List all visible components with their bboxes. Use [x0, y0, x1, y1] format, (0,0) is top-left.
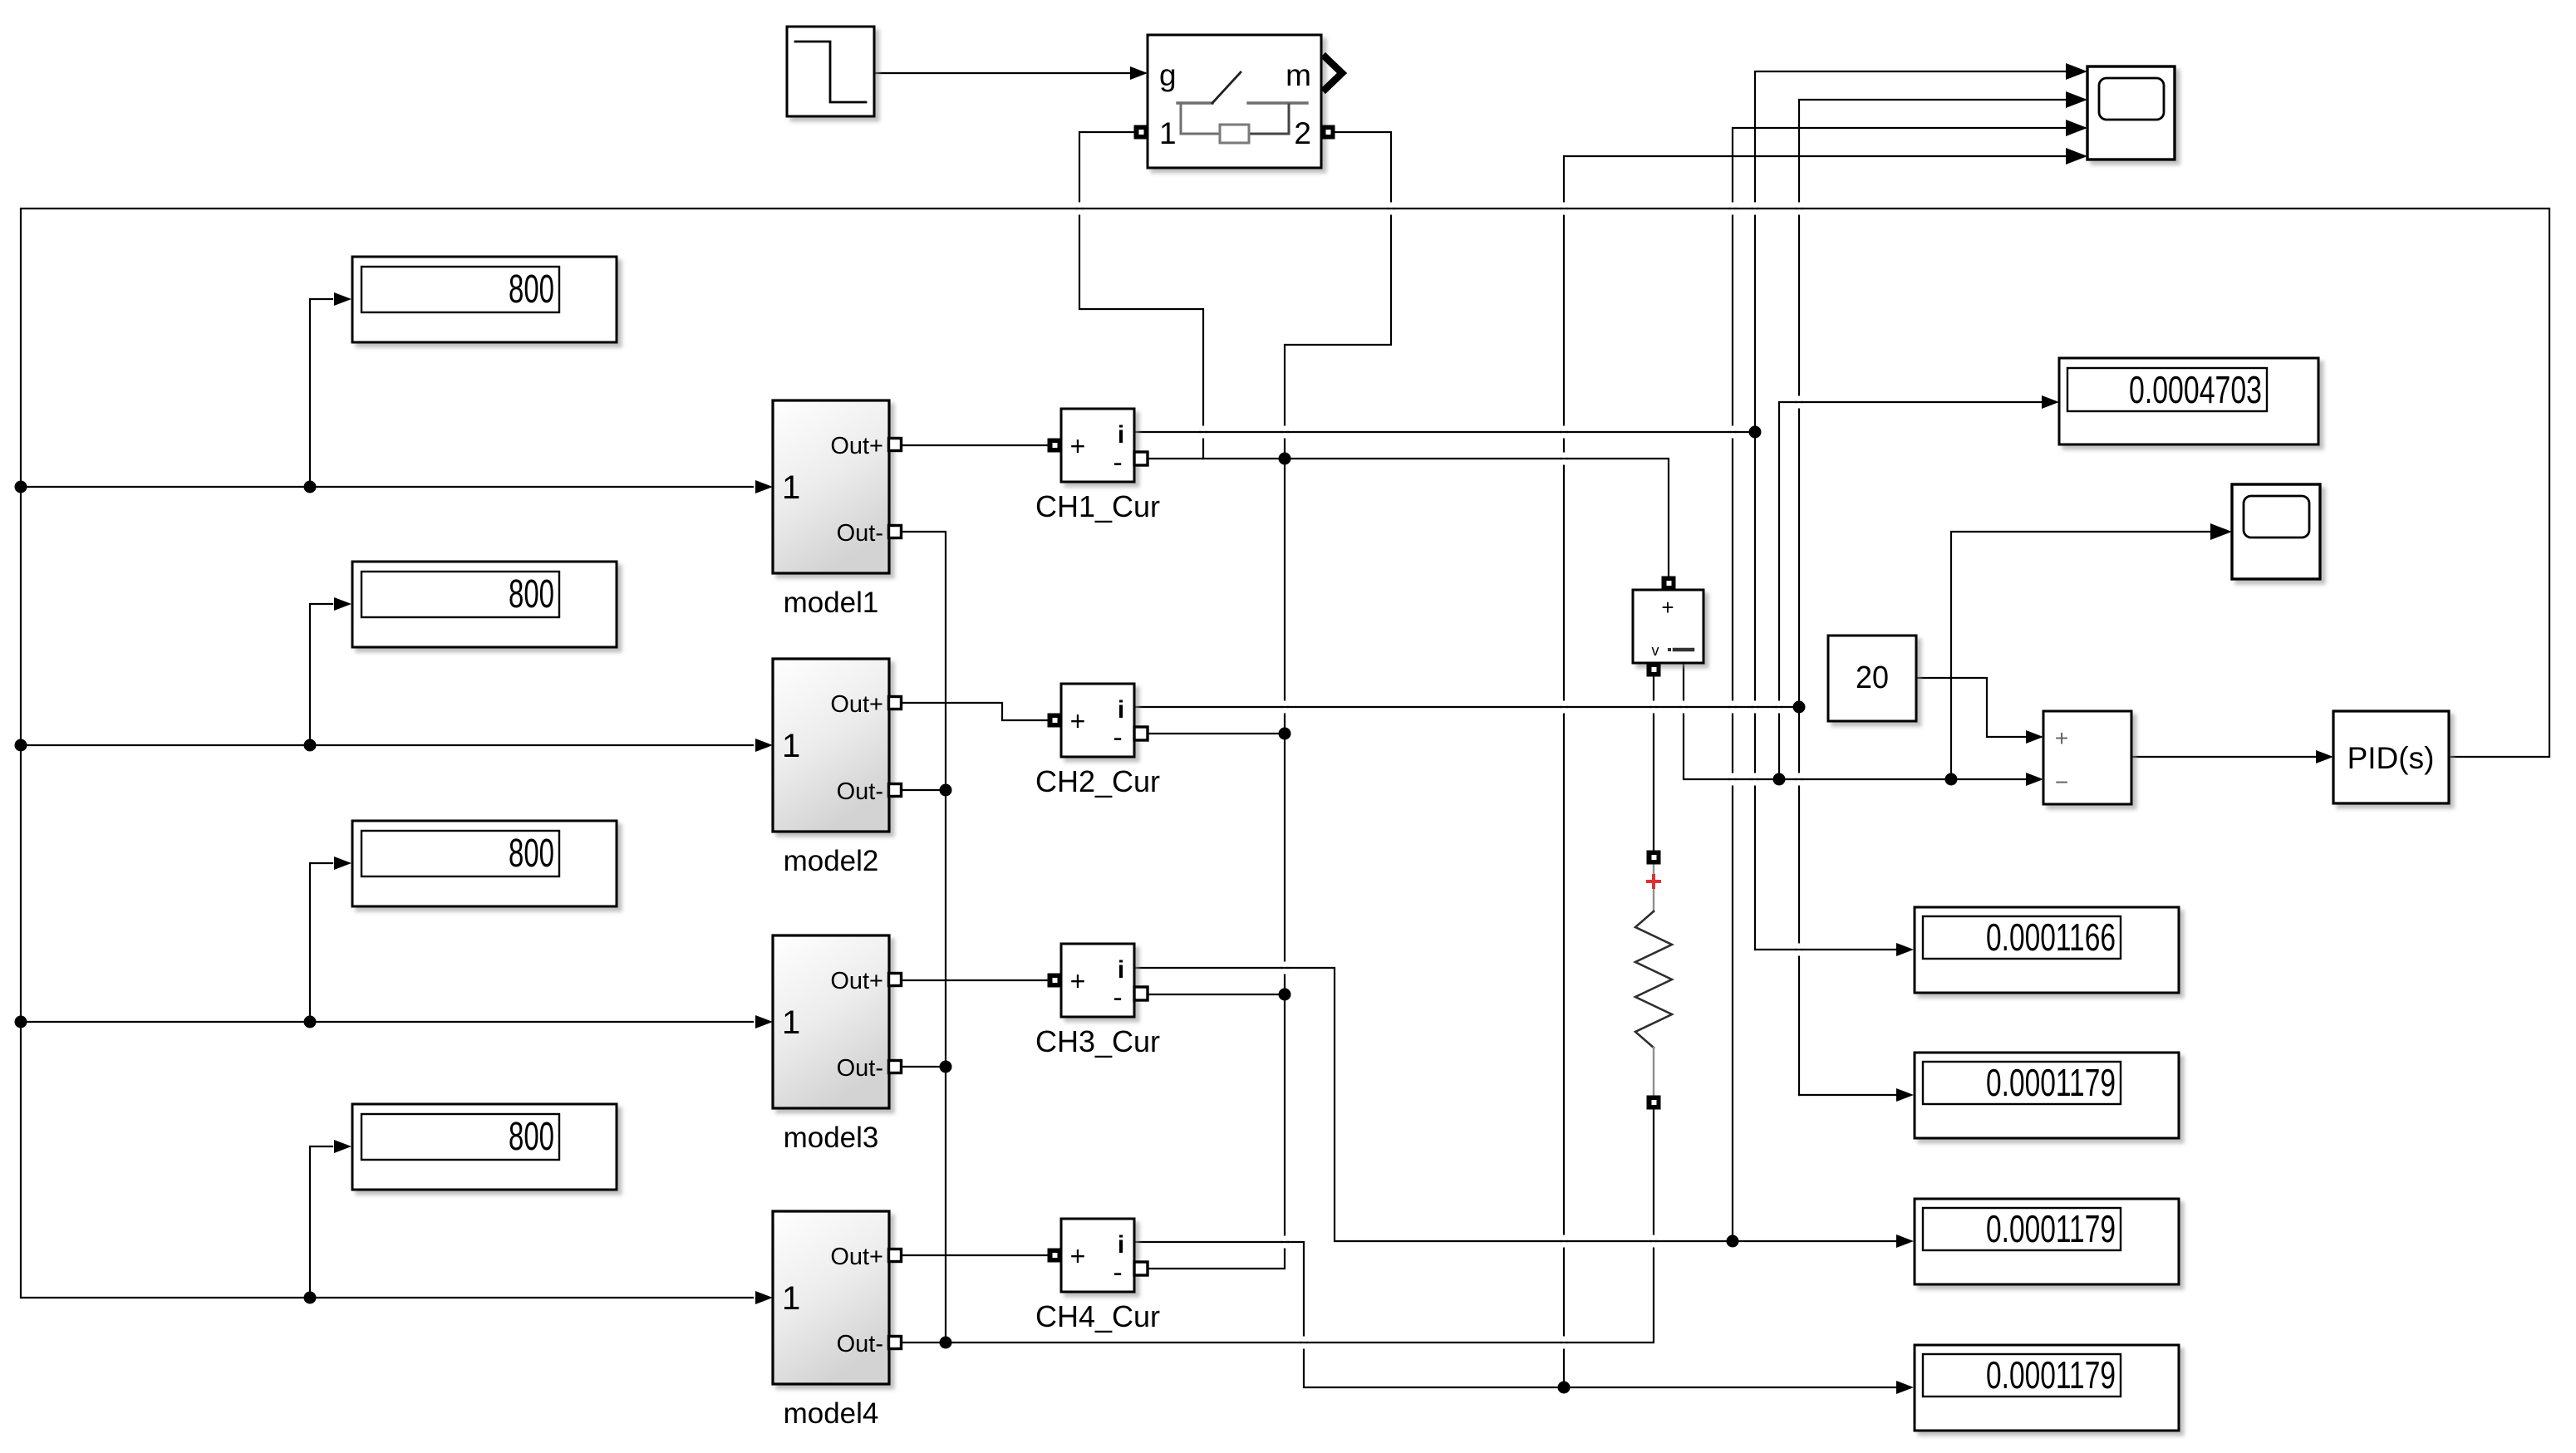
CH3_Cur + port [1048, 974, 1062, 988]
svg-text:model1: model1 [784, 587, 879, 619]
wire branch up to Display 800 #4 [310, 1146, 332, 1298]
wire Constant 20 to Sum + input [1916, 678, 2025, 737]
scope Scope2 (voltage) [2232, 484, 2320, 579]
wire model2 Out- to bus [901, 789, 946, 791]
subsystem block model3 [773, 935, 889, 1154]
svg-text:1: 1 [782, 728, 800, 764]
arrowhead into display 0.0001179 #1 [1896, 1088, 1914, 1102]
arrowhead into Scope input2 [2066, 91, 2087, 108]
CH4_Cur + port [1048, 1249, 1062, 1263]
junction on left feedback rail at model1 branch [15, 481, 27, 493]
arrowhead into Sum + input [2026, 730, 2043, 744]
voltage measurement + port [1662, 577, 1676, 591]
arrowhead into Scope1 [2210, 523, 2232, 540]
svg-text:Out+: Out+ [830, 1244, 883, 1270]
junction CH3 current node [1727, 1235, 1739, 1248]
wire feedback branch to model1 input [21, 486, 753, 488]
svg-text:−: − [2055, 769, 2068, 795]
svg-text:Out+: Out+ [830, 691, 883, 718]
arrowhead into PID input [2316, 750, 2333, 763]
wire branch up to Display 800 #1 [310, 299, 332, 487]
arrowhead into Sum - input [2026, 773, 2043, 786]
svg-text:0.0001179: 0.0001179 [1986, 1061, 2116, 1104]
svg-text:+: + [1070, 431, 1086, 461]
svg-text:-: - [1113, 447, 1122, 479]
series resistor (vertical zigzag) [1635, 864, 1672, 1096]
svg-text:1: 1 [782, 469, 800, 506]
resistor bottom port [1647, 1096, 1661, 1110]
arrowhead into model4 input [755, 1291, 773, 1304]
wire PID output feedback loop (right, top, left) to model4 input [21, 209, 2549, 1298]
junction on left feedback rail at model3 branch [15, 1016, 27, 1028]
junction display1 tap [304, 481, 317, 493]
wire Voltage Measurement v output to Sum - input [1684, 663, 2025, 779]
display block 800 #1 [352, 257, 617, 342]
display block 800 #3 [352, 821, 617, 906]
current sensor block CH2_Cur [1035, 684, 1160, 798]
svg-text:i: i [1118, 956, 1124, 984]
junction display2 tap [304, 739, 317, 752]
arrowhead into model2 input [755, 739, 773, 752]
svg-text:0.0001166: 0.0001166 [1986, 915, 2116, 959]
svg-text:model3: model3 [784, 1122, 879, 1154]
wire model3 Out+ to CH3_Cur + [901, 979, 1048, 981]
wire CH1_Cur - to Voltage Measurement + (bus) [1148, 459, 1669, 577]
wire model4 Out+ to CH4_Cur + [901, 1254, 1048, 1256]
junction CH4 current node [1558, 1382, 1571, 1394]
display block 0.0001179 #4 [1915, 1345, 2179, 1431]
breaker port 2 [1321, 125, 1335, 140]
wire CH4_Cur i output down and right to display 0.0001179 #3 [1134, 1242, 1896, 1387]
arrowhead into breaker g input [1130, 66, 1148, 80]
arrowhead into Display 800 #3 [334, 857, 351, 870]
svg-text:+: + [1070, 1241, 1086, 1271]
wire feedback branch to model3 input [21, 1021, 753, 1023]
svg-text:20: 20 [1856, 660, 1889, 695]
svg-text:Out-: Out- [837, 1055, 883, 1082]
wire CH3_Cur - to bus [1148, 994, 1285, 995]
wire Voltage Measurement - to resistor top [1653, 676, 1654, 851]
junction CH- bus at CH3 [1279, 989, 1291, 1001]
voltage measurement block [1633, 590, 1703, 663]
junction Out- bus at model4 [940, 1337, 952, 1349]
display block 0.0001179 #3 [1915, 1199, 2179, 1284]
model3 Out+ port [889, 974, 902, 986]
arrowhead into Display 800 #2 [334, 597, 351, 611]
resistor red + polarity mark [1646, 874, 1661, 889]
CH2_Cur - port [1134, 727, 1148, 740]
wire CH2_Cur i output to node [1134, 706, 1799, 708]
wire Sum output to PID [2131, 756, 2315, 758]
junction CH1 current node [1749, 426, 1762, 439]
wire crossing hops (white gaps on vertical wires) [1075, 203, 1803, 1349]
svg-text:Out-: Out- [837, 520, 883, 547]
junction Out- bus at model3 [940, 1061, 952, 1073]
wire model2 Out+ to CH2_Cur + (jog) [901, 703, 1048, 720]
subsystem block model4 [773, 1211, 889, 1430]
svg-text:800: 800 [509, 572, 554, 616]
resistor top port [1647, 851, 1661, 865]
svg-text:0.0001179: 0.0001179 [1986, 1207, 2116, 1250]
svg-text:g: g [1159, 58, 1177, 92]
PID controller block PID(s) [2333, 711, 2449, 803]
svg-text:Out+: Out+ [830, 968, 883, 994]
svg-text:CH3_Cur: CH3_Cur [1035, 1024, 1160, 1058]
arrowhead into Display 800 #4 [334, 1140, 351, 1153]
CH4_Cur - port [1134, 1262, 1148, 1275]
wire CH4 current up to Scope input4 [1564, 156, 2066, 1387]
current sensor block CH1_Cur [1035, 409, 1160, 523]
wire voltage node up to Scope1 [1951, 532, 2210, 779]
svg-text:1: 1 [1159, 116, 1177, 150]
step source block Step [787, 27, 874, 116]
junction voltage node to display 0.0004703 [1773, 773, 1786, 786]
display block 800 #4 [352, 1104, 617, 1190]
model3 Out- port [889, 1061, 902, 1073]
svg-text:1: 1 [782, 1004, 800, 1041]
wire voltage node up to display 0.0004703 [1779, 402, 2041, 779]
svg-text:2: 2 [1294, 116, 1311, 150]
model4 Out+ port [889, 1249, 902, 1262]
breaker port 1 [1134, 125, 1148, 140]
svg-text:CH2_Cur: CH2_Cur [1035, 764, 1160, 798]
wire Step output to breaker g input [874, 72, 1129, 74]
arrowhead into Display 800 #1 [334, 292, 351, 306]
svg-text:i: i [1118, 421, 1124, 449]
svg-text:0.0004703: 0.0004703 [2129, 368, 2262, 411]
model2 Out+ port [889, 697, 902, 709]
svg-text:+: + [1070, 706, 1086, 736]
circuit breaker block [1148, 35, 1321, 168]
svg-text:PID(s): PID(s) [2347, 741, 2435, 775]
svg-text:+: + [2055, 725, 2068, 751]
arrowhead into Scope input4 [2066, 148, 2087, 164]
arrowhead into Scope input1 [2066, 63, 2087, 80]
svg-text:model2: model2 [784, 845, 879, 877]
arrowhead into display 0.0001166 [1896, 943, 1914, 956]
CH2_Cur + port [1048, 714, 1062, 728]
junction display4 tap [304, 1292, 317, 1304]
svg-text:800: 800 [509, 268, 554, 312]
sum block (+/-) [2043, 711, 2131, 804]
CH3_Cur - port [1134, 987, 1148, 1000]
svg-text:+: + [1661, 595, 1674, 620]
voltage measurement - port [1647, 663, 1661, 677]
junction CH2 current node [1793, 701, 1806, 714]
junction on left feedback rail at model2 branch [15, 739, 27, 752]
svg-text:Out-: Out- [837, 1331, 883, 1357]
wire CH2_Cur - to bus [1148, 733, 1285, 734]
svg-text:800: 800 [509, 1115, 554, 1159]
wire breaker port1 to CH- bus [1079, 132, 1203, 459]
subsystem block model1 [773, 400, 889, 619]
wire model1 Out- down Out- bus vertical [901, 532, 946, 1343]
svg-text:0.0001179: 0.0001179 [1986, 1353, 2116, 1397]
wire breaker port2 down CH- bus vertical to CH4_Cur - [1148, 132, 1391, 1269]
svg-text:+: + [1070, 966, 1086, 996]
svg-text:Out+: Out+ [830, 433, 883, 459]
display block 0.0004703 [2059, 358, 2318, 444]
wire CH3_Cur i output down and right to display 0.0001179 #2 [1134, 968, 1896, 1241]
wire CH2 current to display 0.0001179 #1 [1799, 1094, 1896, 1096]
wire CH3 current up to Scope input3 [1733, 128, 2066, 1241]
model2 Out- port [889, 784, 902, 797]
svg-text:CH4_Cur: CH4_Cur [1035, 1299, 1160, 1333]
wire CH1 current up to Scope input1 and down to display 0.0001166 [1755, 71, 2066, 950]
subsystem block model2 [773, 659, 889, 877]
svg-text:Out-: Out- [837, 778, 883, 805]
CH1_Cur + port [1048, 439, 1062, 453]
arrowhead into model1 input [755, 480, 773, 493]
junction voltage node to Scope1 [1945, 773, 1958, 786]
svg-text:m: m [1286, 58, 1311, 92]
wire model1 Out+ to CH1_Cur + [901, 444, 1048, 446]
wire CH2 current up to Scope input2 and down to display 0.0001179 #1 [1799, 100, 2066, 1095]
arrowhead into display 0.0004703 [2042, 395, 2059, 409]
svg-text:CH1_Cur: CH1_Cur [1035, 489, 1160, 523]
current sensor block CH4_Cur [1035, 1219, 1160, 1333]
display block 800 #2 [352, 562, 617, 647]
model1 Out+ port [889, 439, 902, 451]
svg-text:800: 800 [509, 832, 554, 876]
wire feedback branch to model2 input [21, 744, 753, 746]
junction CH- bus at CH1 [1279, 453, 1291, 465]
arrowhead into Scope input3 [2066, 120, 2087, 136]
wire branch up to Display 800 #2 [310, 604, 332, 745]
breaker m output chevron [1323, 55, 1342, 91]
svg-text:-: - [1113, 982, 1122, 1014]
current sensor block CH3_Cur [1035, 944, 1160, 1058]
display block 0.0001166 #1 [1915, 907, 2179, 993]
constant block 20 [1828, 636, 1916, 721]
junction Out- bus at model2 [940, 784, 952, 797]
wire CH1_Cur i output to node [1134, 431, 1755, 433]
junction CH- bus at CH2 [1279, 728, 1291, 740]
CH1_Cur - port [1134, 452, 1148, 465]
svg-text:1: 1 [782, 1280, 800, 1317]
model1 Out- port [889, 526, 902, 538]
junction display3 tap [304, 1016, 317, 1028]
svg-text:-: - [1113, 722, 1122, 753]
wire branch up to Display 800 #3 [310, 863, 332, 1022]
svg-text:i: i [1118, 696, 1124, 724]
svg-text:model4: model4 [784, 1397, 879, 1430]
svg-text:-: - [1113, 1257, 1122, 1289]
svg-text:i: i [1118, 1231, 1124, 1259]
wire model4 Out- bus right to series resistor bottom [901, 1109, 1654, 1343]
arrowhead into display 0.0001179 #3 [1896, 1381, 1914, 1394]
model4 Out- port [889, 1337, 902, 1349]
arrowhead into model3 input [755, 1015, 773, 1028]
arrowhead into display 0.0001179 #2 [1896, 1235, 1914, 1248]
scope Scope1 (4 inputs) [2087, 66, 2175, 160]
wire model3 Out- to bus [901, 1066, 946, 1068]
svg-text:v: v [1652, 642, 1659, 659]
display block 0.0001179 #2 [1915, 1053, 2179, 1138]
wire CH1 current to display 0.0001166 [1755, 949, 1896, 950]
